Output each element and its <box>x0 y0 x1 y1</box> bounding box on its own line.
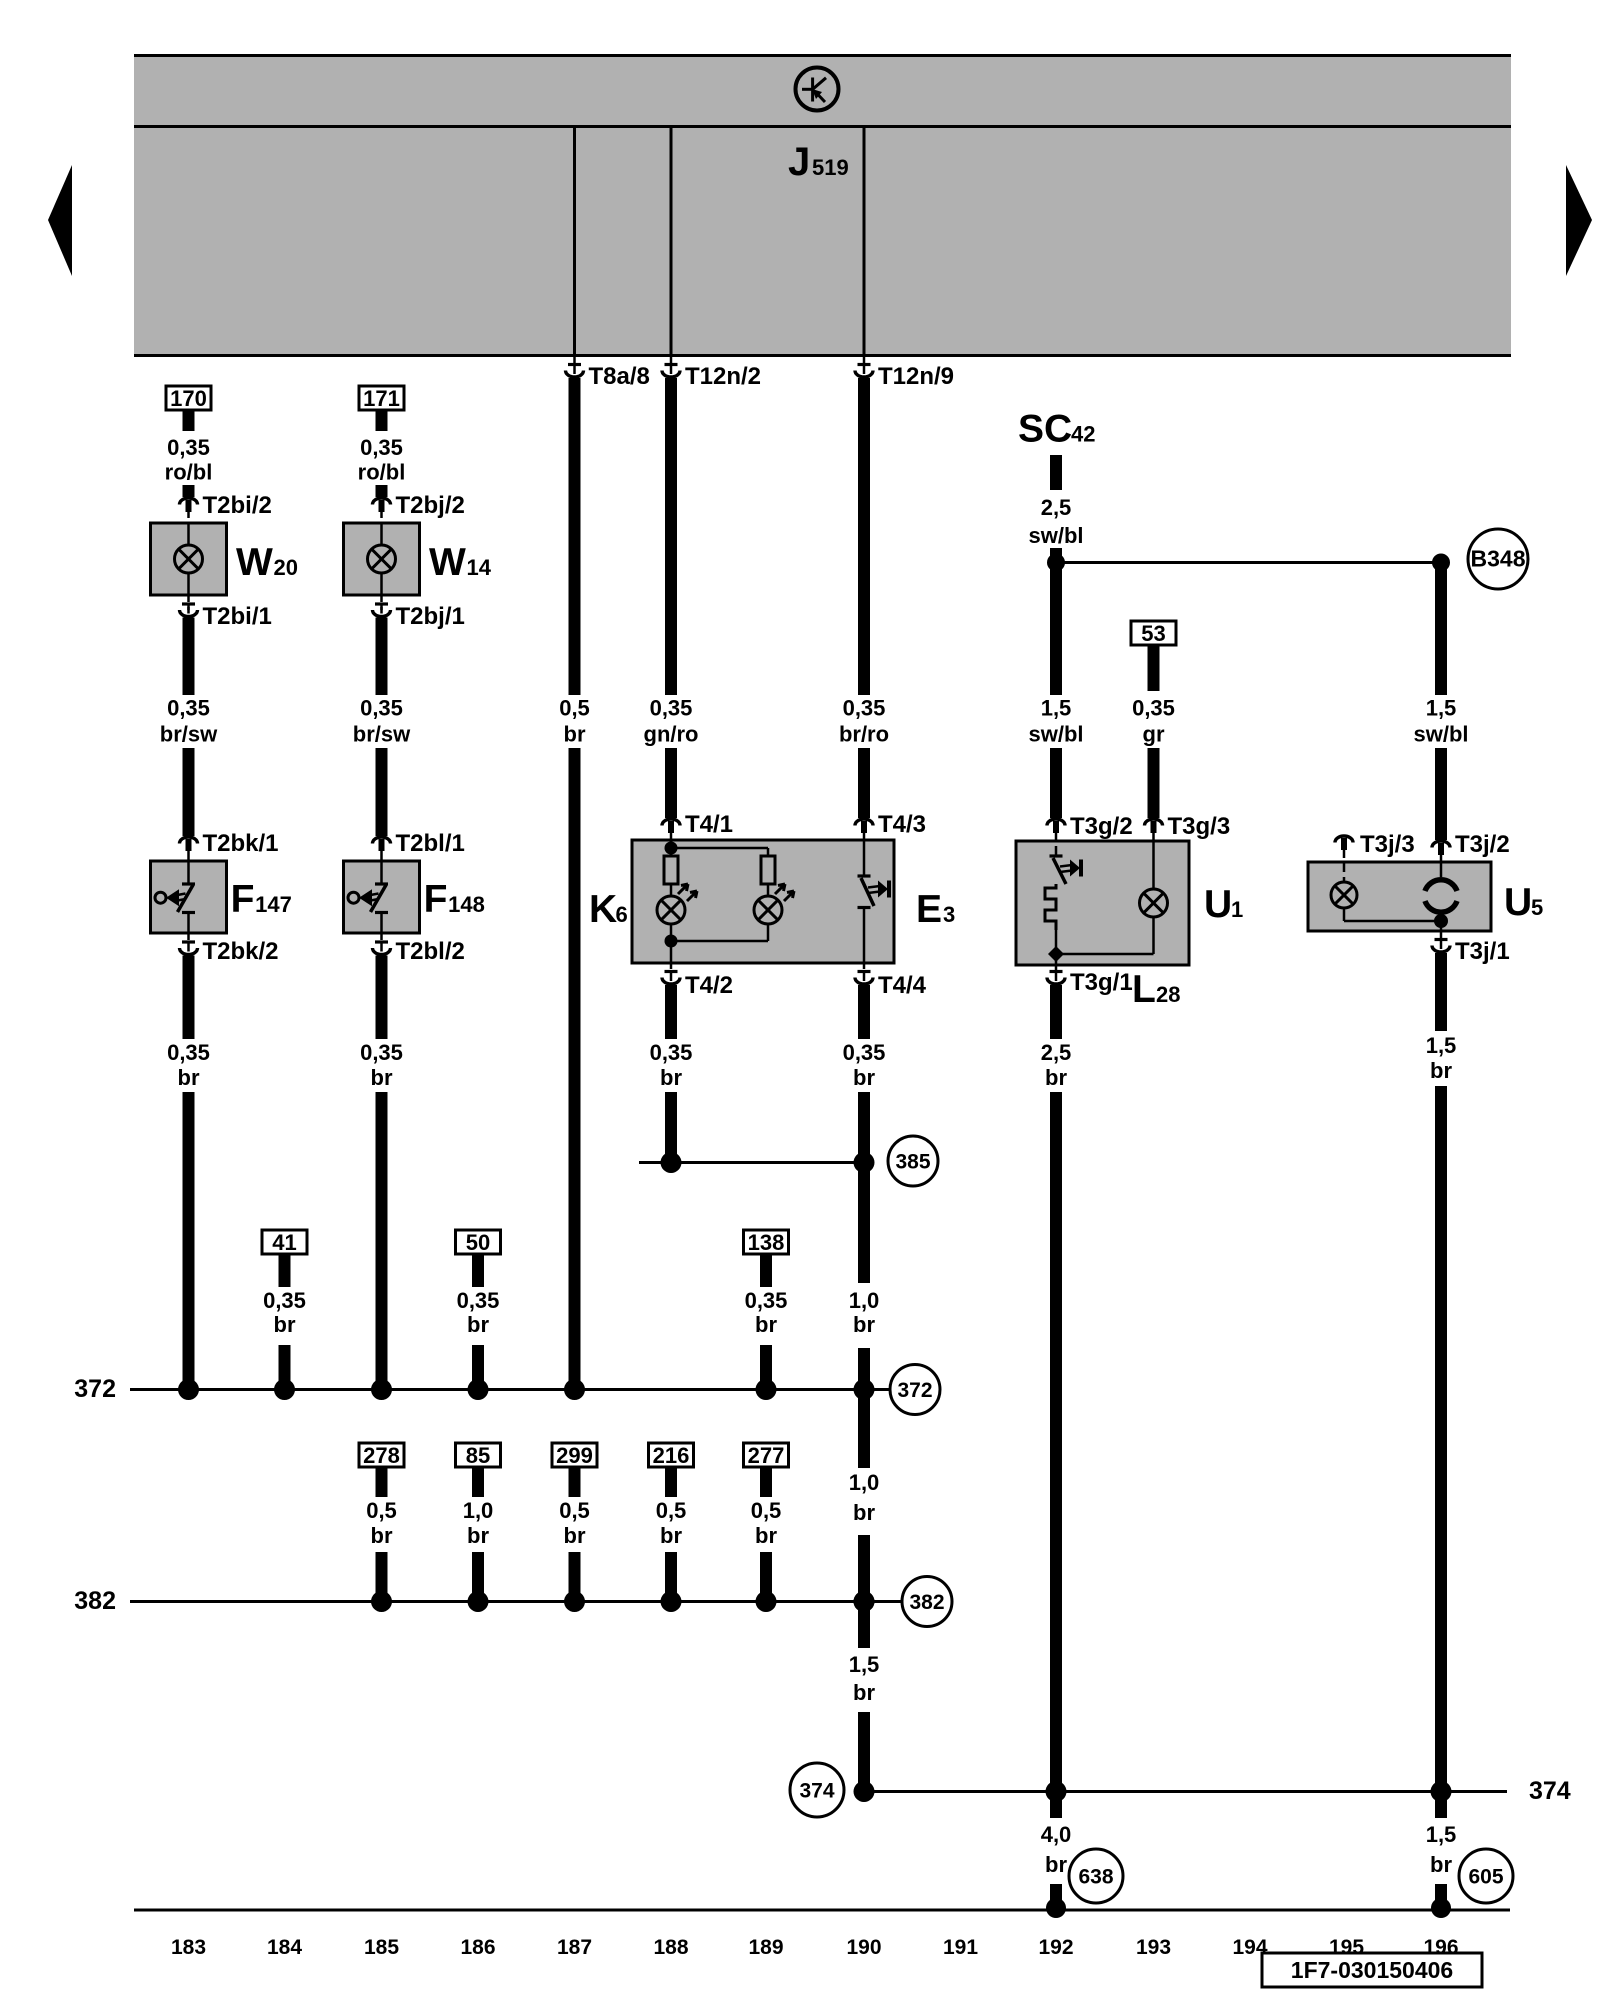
svg-text:41: 41 <box>272 1230 296 1255</box>
svg-text:br: br <box>371 1523 393 1548</box>
svg-text:0,5: 0,5 <box>751 1498 782 1523</box>
svg-text:0,35: 0,35 <box>167 696 210 721</box>
svg-text:ro/bl: ro/bl <box>358 460 406 485</box>
svg-text:W: W <box>236 541 273 584</box>
svg-text:216: 216 <box>653 1443 690 1468</box>
svg-text:br: br <box>371 1065 393 1090</box>
svg-text:0,35: 0,35 <box>167 435 210 460</box>
svg-text:sw/bl: sw/bl <box>1028 523 1083 548</box>
svg-text:385: 385 <box>895 1151 930 1174</box>
svg-text:6: 6 <box>616 902 628 927</box>
svg-text:28: 28 <box>1156 982 1180 1007</box>
svg-text:K: K <box>589 888 617 931</box>
svg-text:br: br <box>853 1312 875 1337</box>
svg-text:5: 5 <box>1531 895 1543 920</box>
svg-text:148: 148 <box>448 892 485 917</box>
svg-text:gn/ro: gn/ro <box>644 722 699 747</box>
svg-text:br: br <box>467 1312 489 1337</box>
svg-text:2,5: 2,5 <box>1041 495 1072 520</box>
svg-text:T12n/9: T12n/9 <box>878 363 954 390</box>
svg-text:T4/3: T4/3 <box>878 811 926 838</box>
svg-text:0,35: 0,35 <box>360 435 403 460</box>
svg-text:T4/4: T4/4 <box>878 972 927 999</box>
svg-text:0,35: 0,35 <box>650 696 693 721</box>
svg-text:0,5: 0,5 <box>656 1498 687 1523</box>
svg-text:F: F <box>424 878 448 921</box>
svg-text:T3g/1: T3g/1 <box>1070 969 1133 996</box>
svg-text:br: br <box>1045 1852 1067 1877</box>
svg-text:374: 374 <box>799 1780 834 1803</box>
svg-text:1,5: 1,5 <box>1426 1822 1457 1847</box>
svg-text:0,35: 0,35 <box>360 696 403 721</box>
svg-text:sw/bl: sw/bl <box>1413 722 1468 747</box>
svg-text:138: 138 <box>748 1230 785 1255</box>
svg-text:T3g/3: T3g/3 <box>1168 813 1231 840</box>
svg-text:br: br <box>1430 1058 1452 1083</box>
svg-text:T4/2: T4/2 <box>685 972 733 999</box>
svg-text:gr: gr <box>1143 722 1165 747</box>
svg-text:br: br <box>178 1065 200 1090</box>
svg-text:br: br <box>660 1523 682 1548</box>
svg-text:T12n/2: T12n/2 <box>685 363 761 390</box>
svg-text:0,5: 0,5 <box>366 1498 397 1523</box>
svg-text:br: br <box>274 1312 296 1337</box>
svg-text:br/sw: br/sw <box>353 722 411 747</box>
svg-text:T2bi/2: T2bi/2 <box>203 492 272 519</box>
svg-text:192: 192 <box>1038 1936 1073 1959</box>
svg-text:53: 53 <box>1141 621 1165 646</box>
svg-text:T8a/8: T8a/8 <box>589 363 650 390</box>
svg-text:T3j/1: T3j/1 <box>1455 938 1510 965</box>
svg-text:147: 147 <box>255 892 292 917</box>
svg-text:1,5: 1,5 <box>1426 1033 1457 1058</box>
svg-text:85: 85 <box>466 1443 490 1468</box>
svg-text:br: br <box>467 1523 489 1548</box>
svg-text:1,0: 1,0 <box>463 1498 494 1523</box>
svg-text:br: br <box>564 1523 586 1548</box>
svg-text:U: U <box>1504 881 1532 924</box>
svg-text:638: 638 <box>1078 1866 1113 1889</box>
svg-text:374: 374 <box>1529 1777 1571 1805</box>
svg-text:382: 382 <box>909 1591 944 1614</box>
svg-text:L: L <box>1132 968 1156 1011</box>
svg-text:1,5: 1,5 <box>1041 696 1072 721</box>
svg-text:1,0: 1,0 <box>849 1470 880 1495</box>
svg-text:299: 299 <box>556 1443 593 1468</box>
svg-text:42: 42 <box>1071 422 1095 447</box>
svg-text:277: 277 <box>748 1443 785 1468</box>
svg-text:14: 14 <box>467 555 492 580</box>
svg-text:br: br <box>660 1065 682 1090</box>
svg-text:br: br <box>755 1312 777 1337</box>
svg-text:171: 171 <box>363 386 400 411</box>
svg-text:U: U <box>1204 883 1232 926</box>
svg-text:T2bj/1: T2bj/1 <box>396 603 465 630</box>
svg-text:191: 191 <box>943 1936 978 1959</box>
svg-text:T2bi/1: T2bi/1 <box>203 603 272 630</box>
svg-text:T3j/2: T3j/2 <box>1455 831 1510 858</box>
svg-text:br: br <box>853 1680 875 1705</box>
svg-text:1: 1 <box>1231 897 1243 922</box>
svg-text:J: J <box>788 140 810 184</box>
svg-text:183: 183 <box>171 1936 206 1959</box>
svg-text:186: 186 <box>460 1936 495 1959</box>
svg-text:0,35: 0,35 <box>1132 696 1175 721</box>
svg-text:3: 3 <box>943 902 955 927</box>
svg-text:T4/1: T4/1 <box>685 811 733 838</box>
svg-text:0,35: 0,35 <box>843 1040 886 1065</box>
svg-text:0,35: 0,35 <box>745 1288 788 1313</box>
svg-text:278: 278 <box>363 1443 400 1468</box>
svg-text:190: 190 <box>846 1936 881 1959</box>
svg-text:T2bl/2: T2bl/2 <box>396 938 465 965</box>
svg-text:0,35: 0,35 <box>650 1040 693 1065</box>
svg-text:br: br <box>755 1523 777 1548</box>
svg-text:0,35: 0,35 <box>360 1040 403 1065</box>
svg-text:1,5: 1,5 <box>849 1652 880 1677</box>
svg-text:br: br <box>1045 1065 1067 1090</box>
svg-text:E: E <box>916 888 942 931</box>
svg-text:372: 372 <box>897 1379 932 1402</box>
svg-text:br: br <box>853 1065 875 1090</box>
svg-text:170: 170 <box>170 386 207 411</box>
svg-text:187: 187 <box>557 1936 592 1959</box>
svg-text:T2bk/2: T2bk/2 <box>203 938 279 965</box>
svg-text:br: br <box>564 722 586 747</box>
svg-text:0,35: 0,35 <box>457 1288 500 1313</box>
svg-text:188: 188 <box>653 1936 688 1959</box>
svg-text:T2bj/2: T2bj/2 <box>396 492 465 519</box>
svg-text:20: 20 <box>274 555 298 580</box>
svg-text:ro/bl: ro/bl <box>165 460 213 485</box>
svg-text:br: br <box>1430 1852 1452 1877</box>
svg-text:B348: B348 <box>1471 546 1526 572</box>
svg-text:184: 184 <box>267 1936 302 1959</box>
svg-text:0,35: 0,35 <box>167 1040 210 1065</box>
svg-text:F: F <box>231 878 255 921</box>
svg-text:1F7-030150406: 1F7-030150406 <box>1291 1957 1453 1983</box>
svg-text:SC: SC <box>1018 408 1072 451</box>
svg-text:0,35: 0,35 <box>263 1288 306 1313</box>
svg-text:br: br <box>853 1500 875 1525</box>
svg-text:605: 605 <box>1468 1866 1503 1889</box>
svg-text:W: W <box>429 541 466 584</box>
svg-text:0,5: 0,5 <box>559 1498 590 1523</box>
svg-text:0,35: 0,35 <box>843 696 886 721</box>
svg-text:br/ro: br/ro <box>839 722 889 747</box>
svg-text:519: 519 <box>812 155 849 180</box>
svg-text:T2bl/1: T2bl/1 <box>396 830 465 857</box>
svg-text:185: 185 <box>364 1936 399 1959</box>
svg-text:T3j/3: T3j/3 <box>1360 831 1415 858</box>
svg-text:T2bk/1: T2bk/1 <box>203 830 279 857</box>
svg-text:sw/bl: sw/bl <box>1028 722 1083 747</box>
svg-text:2,5: 2,5 <box>1041 1040 1072 1065</box>
svg-text:1,0: 1,0 <box>849 1288 880 1313</box>
svg-text:189: 189 <box>748 1936 783 1959</box>
svg-text:br/sw: br/sw <box>160 722 218 747</box>
svg-text:372: 372 <box>74 1375 116 1403</box>
svg-text:4,0: 4,0 <box>1041 1822 1072 1847</box>
svg-text:0,5: 0,5 <box>559 696 590 721</box>
svg-text:T3g/2: T3g/2 <box>1070 813 1133 840</box>
svg-text:50: 50 <box>466 1230 490 1255</box>
svg-text:193: 193 <box>1136 1936 1171 1959</box>
svg-text:1,5: 1,5 <box>1426 696 1457 721</box>
svg-text:382: 382 <box>74 1587 116 1615</box>
